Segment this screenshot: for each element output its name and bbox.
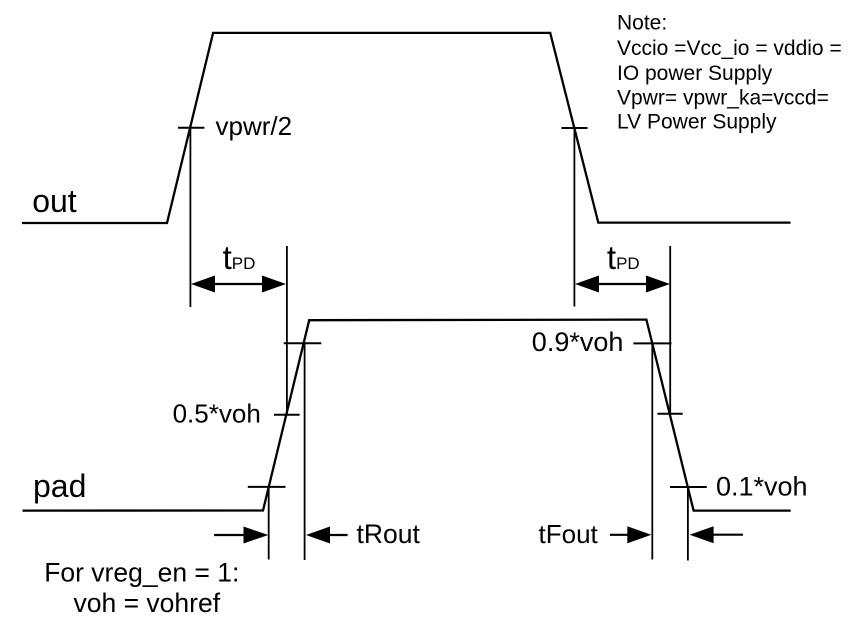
- svg-text:Vpwr= vpwr_ka=vccd=: Vpwr= vpwr_ka=vccd=: [617, 86, 829, 109]
- svg-text:tFout: tFout: [539, 519, 599, 549]
- svg-text:vpwr/2: vpwr/2: [216, 111, 293, 141]
- svg-text:Note:: Note:: [617, 11, 667, 34]
- vertical line from pad falling 0.5 crossing (tPD right boundary): [669, 246, 671, 414]
- vertical line from pad falling 0.9 crossing (tFout left boundary): [651, 343, 653, 559]
- vertical line from out falling vpwr/2 crossing: [573, 128, 575, 307]
- svg-text:For vreg_en = 1:: For vreg_en = 1:: [44, 557, 239, 587]
- arrow tRout right outer (points left at 0.9 line): [306, 527, 348, 544]
- tick 0.1*voh on pad falling edge: [670, 486, 707, 488]
- pad waveform: [23, 320, 791, 511]
- tick 0.9*voh on pad falling edge: [633, 342, 671, 344]
- out waveform: [22, 33, 791, 223]
- vertical line from pad rising 0.5 crossing (tPD right boundary): [286, 246, 288, 415]
- arrow tFout left outer (points right at 0.9 line): [610, 526, 651, 543]
- tick vpwr/2 on out falling edge: [561, 127, 587, 129]
- arrow tPD left (double-headed): [191, 276, 286, 293]
- tick 0.5*voh on pad rising edge: [274, 414, 300, 416]
- tick 0.1*voh on pad rising edge: [248, 486, 286, 488]
- arrow tFout right outer (points left at 0.1 line): [690, 526, 743, 543]
- arrow tPD right (double-headed): [575, 276, 670, 293]
- vertical line from pad rising 0.1 crossing (tRout left boundary): [268, 487, 270, 560]
- arrow tRout left outer (points right at 0.1 line): [214, 527, 268, 544]
- tick vpwr/2 on out rising edge: [178, 127, 204, 129]
- svg-text:pad: pad: [33, 468, 86, 504]
- svg-text:LV Power Supply: LV Power Supply: [617, 111, 777, 134]
- svg-text:0.1*voh: 0.1*voh: [716, 472, 808, 502]
- tick 0.9*voh on pad rising edge: [284, 342, 322, 344]
- svg-text:voh = vohref: voh = vohref: [74, 588, 221, 618]
- svg-text:out: out: [32, 183, 77, 219]
- vertical line from out rising vpwr/2 crossing: [189, 128, 191, 307]
- svg-text:0.5*voh: 0.5*voh: [173, 398, 261, 428]
- svg-text:Vccio =Vcc_io = vddio =: Vccio =Vcc_io = vddio =: [617, 37, 842, 60]
- svg-text:tRout: tRout: [357, 519, 421, 549]
- svg-text:0.9*voh: 0.9*voh: [532, 327, 624, 357]
- tick 0.5*voh on pad falling edge: [657, 413, 682, 415]
- vertical line from pad rising 0.9 crossing (tRout right boundary): [304, 343, 306, 560]
- vertical line from pad falling 0.1 crossing (tFout right boundary): [687, 487, 689, 561]
- svg-text:IO power Supply: IO power Supply: [617, 62, 773, 85]
